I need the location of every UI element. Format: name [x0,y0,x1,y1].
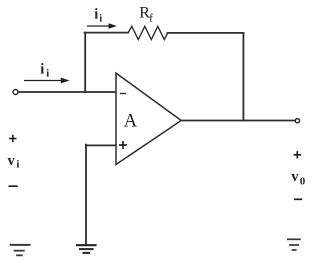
wire ground riser from noninverting input [85,145,87,245]
ground (right, under output terminal) [287,239,301,250]
label v0 minus sign [294,198,302,200]
svg-text:v: v [8,153,16,169]
ground (bottom-left corner, partial) [10,245,31,255]
svg-text:v: v [291,169,299,185]
wire output from op-amp to output terminal [181,120,295,122]
svg-text:i: i [40,61,44,77]
label v0 plus sign [294,151,301,158]
node output terminal (right, v0) [295,119,299,123]
ground (left, under noninverting input) [76,245,97,253]
label vi [8,153,20,171]
wire feedback top right segment from resistor to corner [168,32,244,34]
label v0 [291,169,306,188]
wire feedback top left segment to resistor [85,32,129,34]
op-amp U1 triangle [116,73,181,164]
svg-text:0: 0 [300,176,306,188]
current arrow ii (feedback) [87,23,117,28]
label vi minus sign [9,185,18,187]
svg-text:i: i [99,13,102,24]
wire input from terminal to inverting input [18,91,115,93]
svg-text:i: i [16,158,19,170]
label vi plus sign [9,135,16,142]
label ii (feedback current) [94,6,102,24]
node input terminal (left, vi) [13,90,18,95]
svg-text:i: i [94,6,98,22]
op-amp inverting input minus mark [120,93,126,95]
resistor Rf body (zigzag) [128,26,168,39]
label ii (left input current) [40,61,49,79]
op-amp noninverting input plus mark [119,141,127,149]
current arrow ii (left input) [24,78,70,84]
svg-text:i: i [46,68,49,79]
wire noninverting input [86,144,116,146]
svg-text:A: A [124,112,138,132]
label Rf [139,5,153,25]
svg-text:f: f [149,10,153,24]
wire feedback drop down to output node [242,33,244,121]
wire feedback riser up from input node [84,33,86,92]
